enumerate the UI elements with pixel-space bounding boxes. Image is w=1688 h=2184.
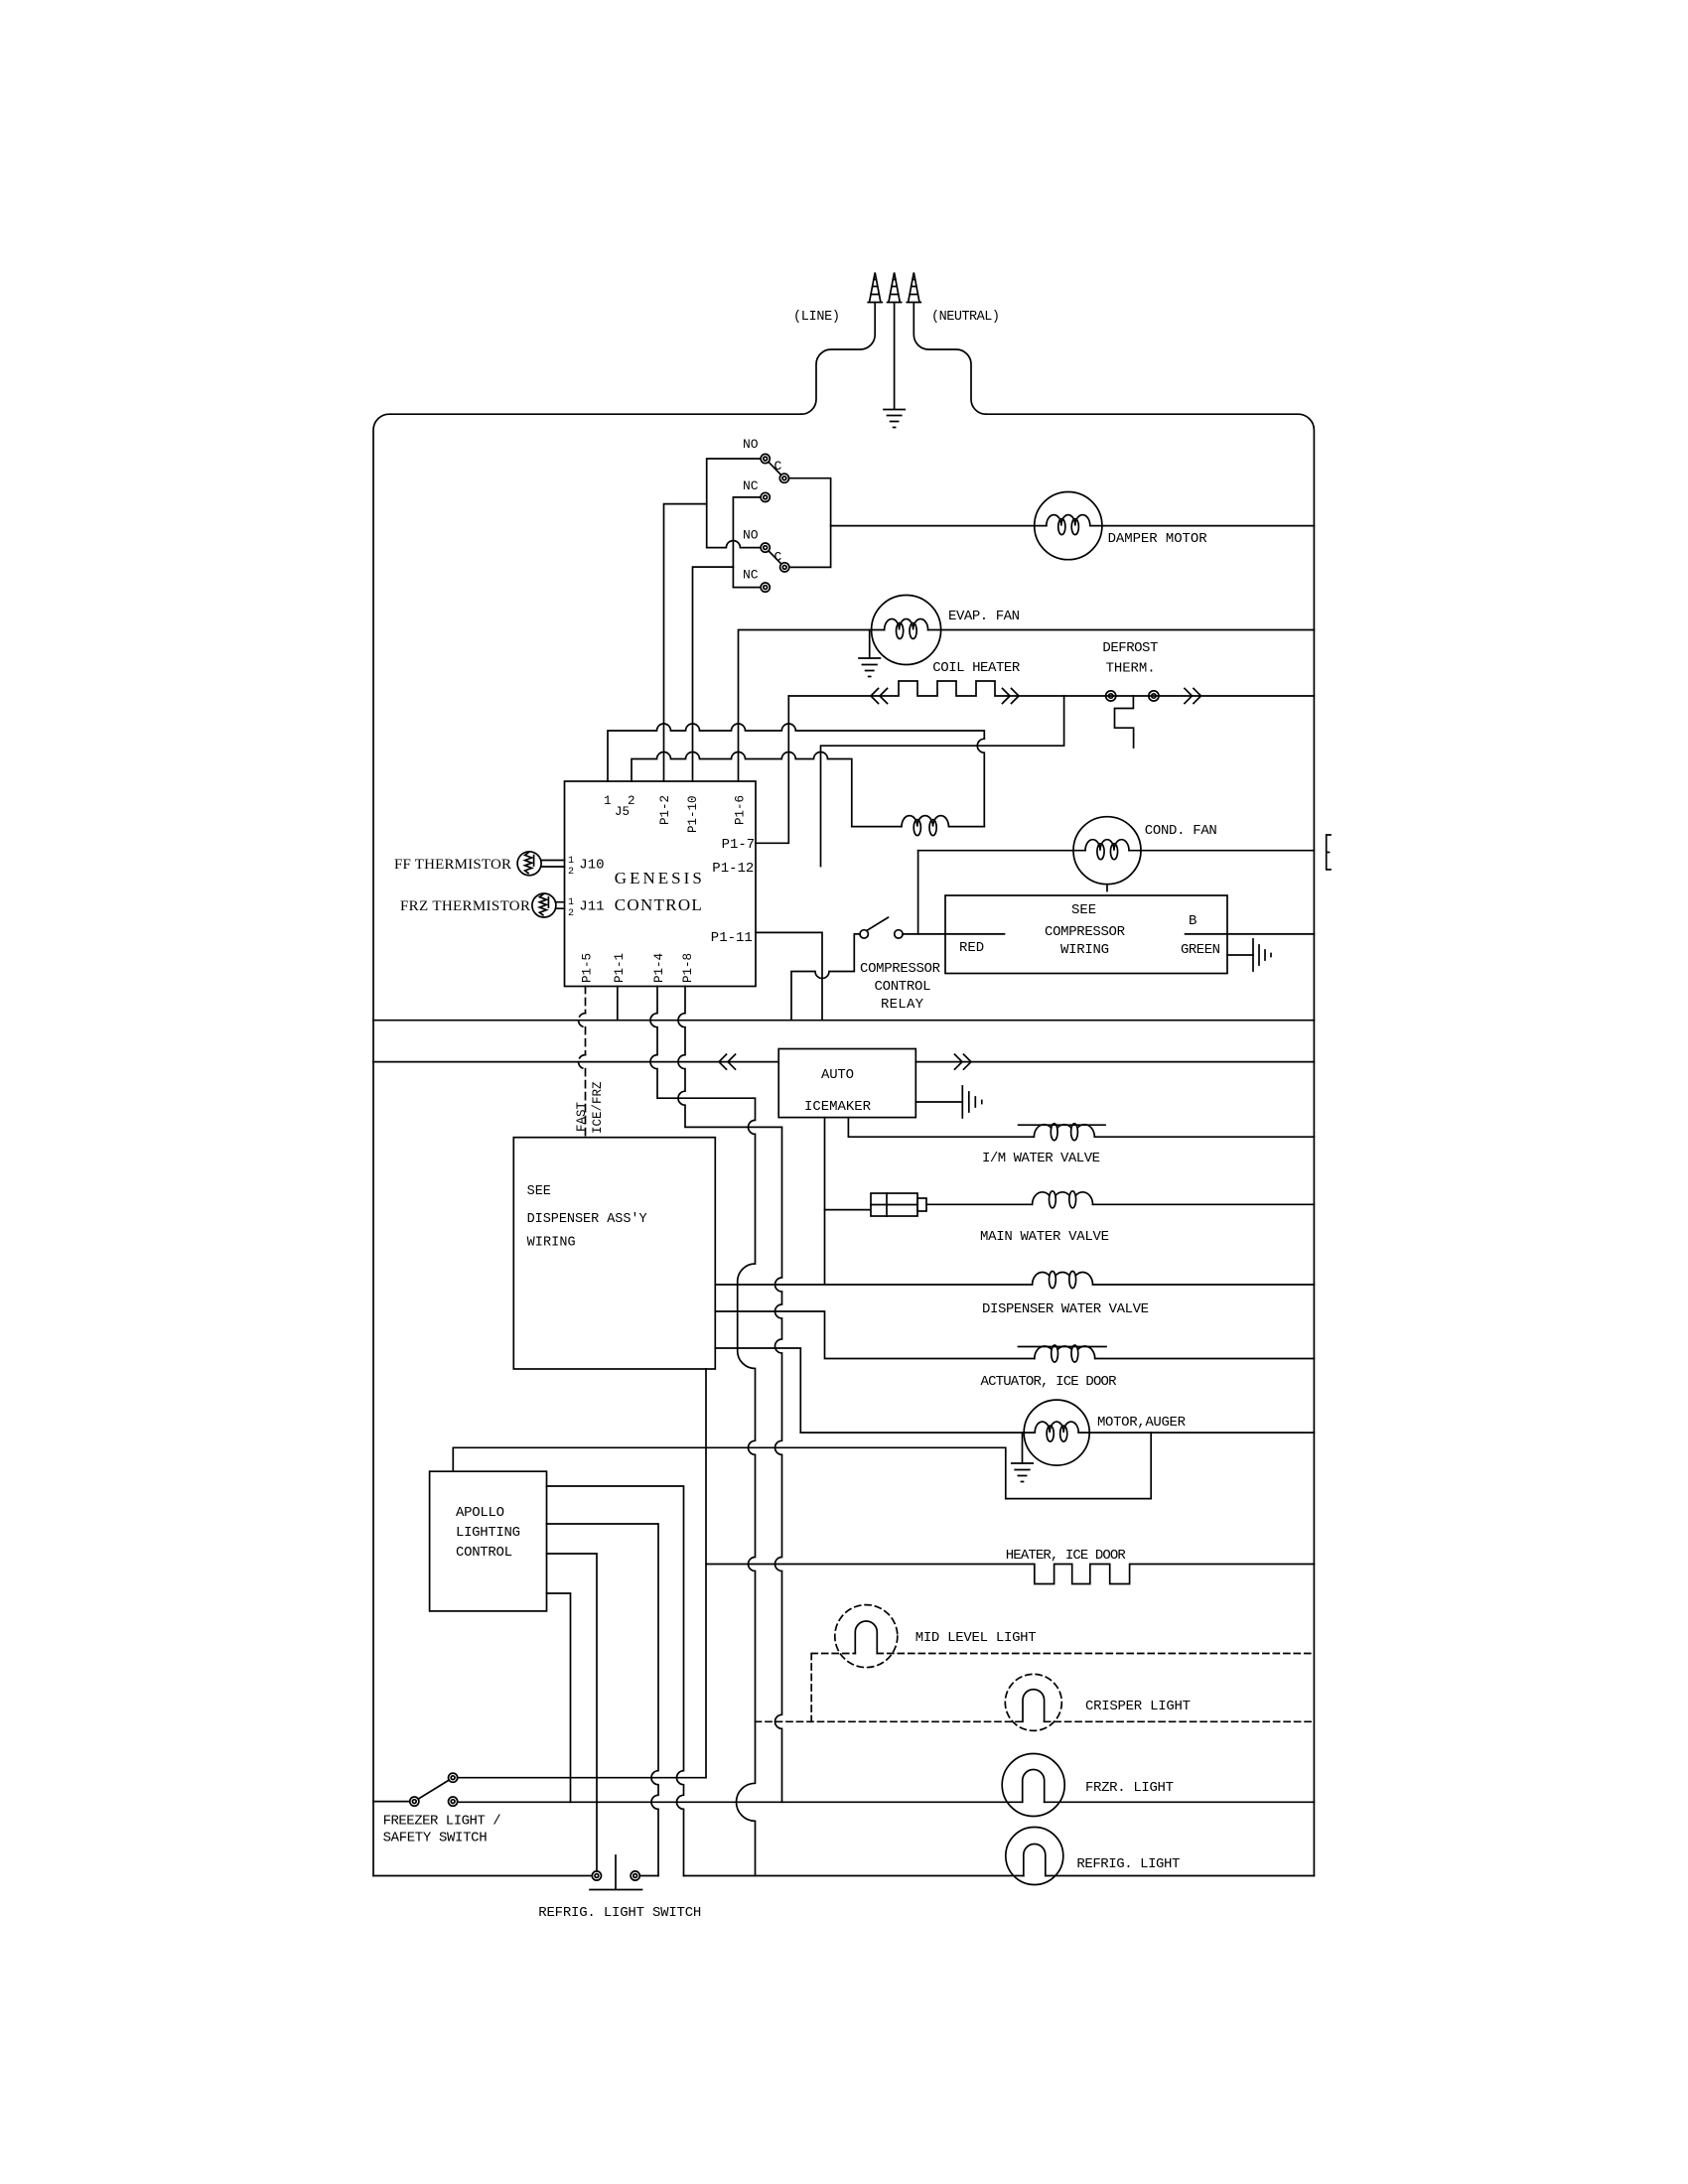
wire LINE down to border [801, 303, 875, 415]
svg-text:COMPRESSOR: COMPRESSOR [860, 961, 941, 977]
svg-text:HEATER, ICE DOOR: HEATER, ICE DOOR [1006, 1548, 1127, 1564]
main water valve solenoid L3 [1033, 1192, 1093, 1205]
wire refrig switch to apollo pin2 [639, 1875, 658, 1877]
svg-text:WIRING: WIRING [527, 1236, 576, 1251]
svg-text:C: C [774, 550, 782, 565]
svg-text:J10: J10 [579, 858, 604, 874]
wire bus line2 icemaker feed [373, 1061, 778, 1063]
svg-text:1: 1 [604, 794, 612, 808]
svg-text:FAST: FAST [575, 1101, 589, 1132]
ground power entry [884, 410, 905, 428]
wire B GREEN line [1186, 933, 1315, 935]
svg-text:FRZR. LIGHT: FRZR. LIGHT [1085, 1780, 1174, 1796]
switch SW2 NO terminal [761, 543, 770, 552]
svg-text:FREEZER LIGHT /: FREEZER LIGHT / [383, 1814, 501, 1830]
svg-text:AUTO: AUTO [821, 1067, 854, 1083]
wire heater ice door row [706, 1565, 1314, 1584]
svg-text:COMPRESSOR: COMPRESSOR [1045, 924, 1126, 940]
wire main to dispenser valve tie [824, 1210, 826, 1285]
wire freezer switch NO row [458, 1777, 706, 1779]
svg-text:NC: NC [743, 568, 759, 583]
coil L1 between bus lines [852, 816, 985, 827]
svg-text:P1-5: P1-5 [581, 953, 595, 983]
switch SW2 NC terminal [761, 583, 770, 592]
mid level light LP1 [835, 1605, 898, 1668]
svg-text:ICEMAKER: ICEMAKER [804, 1099, 872, 1115]
wire relay right contact to RED [903, 933, 1004, 935]
outer border left [373, 414, 801, 1875]
wire apollo pin4 [547, 1593, 571, 1802]
svg-text:B: B [1189, 913, 1196, 929]
svg-text:ACTUATOR, ICE DOOR: ACTUATOR, ICE DOOR [981, 1374, 1118, 1390]
connector arrows coil heater left [871, 689, 888, 704]
outer border right [986, 414, 1314, 1875]
svg-text:REFRIG. LIGHT: REFRIG. LIGHT [1076, 1856, 1180, 1872]
wire P1-12 up to defrost line [821, 696, 1064, 867]
svg-text:MID LEVEL LIGHT: MID LEVEL LIGHT [915, 1630, 1037, 1646]
svg-text:DISPENSER WATER VALVE: DISPENSER WATER VALVE [982, 1301, 1149, 1317]
svg-text:J11: J11 [579, 899, 604, 915]
crisper light LP2 [1005, 1674, 1061, 1730]
wire NO1 to NO2 bus [707, 459, 761, 548]
wire apollo pin2 [547, 1524, 659, 1876]
wire dispenser row2 to actuator [715, 1311, 1314, 1359]
connector arrows icemaker right [955, 1054, 972, 1069]
switch SW2 lever [769, 551, 781, 564]
wire C1-C2 tie [789, 478, 831, 568]
svg-text:P1-8: P1-8 [681, 953, 695, 983]
bus line B from J5-2 [632, 752, 852, 827]
defrost thermostat step element [1115, 696, 1134, 748]
wire icemaker bottom to main valve [825, 1118, 872, 1210]
dispenser water valve solenoid L4 [1033, 1273, 1093, 1286]
wire NC bus to P1-10 [693, 567, 734, 781]
wire dispenser row3 to auger [715, 1348, 800, 1433]
wire NC2 [733, 587, 761, 589]
svg-text:P1-2: P1-2 [658, 795, 672, 825]
wire freezer switch common to border [373, 1801, 410, 1803]
power entry arrow NEUTRAL [907, 273, 920, 303]
connector bracket right border [1327, 835, 1331, 870]
main water valve fuse F1 [871, 1193, 917, 1216]
auger motor M4 [1024, 1400, 1089, 1465]
wire auger motor row [800, 1432, 1314, 1433]
connector arrows icemaker left [719, 1054, 736, 1069]
svg-text:SEE: SEE [1071, 902, 1096, 918]
wire coil heater row with heater element [788, 681, 1314, 696]
svg-text:CONTROL: CONTROL [456, 1545, 512, 1561]
svg-text:COND. FAN: COND. FAN [1145, 823, 1217, 839]
svg-text:SAFETY SWITCH: SAFETY SWITCH [383, 1831, 488, 1846]
svg-text:1: 1 [568, 856, 574, 867]
svg-text:GREEN: GREEN [1181, 942, 1220, 958]
evap fan motor M2 [872, 596, 941, 665]
svg-text:LIGHTING: LIGHTING [456, 1525, 520, 1541]
wire evap fan row [739, 630, 1315, 782]
wire green ground stub [1227, 954, 1253, 956]
svg-text:SEE: SEE [527, 1184, 551, 1199]
ground evap fan [869, 630, 871, 659]
svg-text:APOLLO: APOLLO [456, 1505, 504, 1521]
switch SW1 lever [769, 462, 781, 475]
svg-text:CONTROL: CONTROL [615, 895, 702, 914]
wire refrig row left [373, 1875, 592, 1877]
wire icemaker ground stub [915, 1101, 962, 1103]
refrig light LP4 [1006, 1828, 1063, 1885]
wire main valve row [926, 1203, 1314, 1205]
frzr light LP3 [1002, 1754, 1064, 1817]
wire icemaker right to border [915, 1061, 1314, 1063]
wire cond fan row [918, 850, 1315, 852]
wire P1-11 to relay [756, 932, 822, 1020]
wire apollo top feed to auger [453, 1433, 1151, 1499]
wire P1-7 up to coil heater line [756, 696, 788, 843]
svg-text:FRZ THERMISTOR: FRZ THERMISTOR [400, 898, 530, 914]
refrig light switch SW4 [592, 1871, 601, 1880]
wire damper motor row [831, 525, 1315, 527]
svg-text:NO: NO [743, 437, 759, 452]
switch SW2 C terminal [780, 563, 789, 572]
svg-text:RELAY: RELAY [881, 997, 924, 1013]
svg-text:CONTROL: CONTROL [875, 979, 931, 995]
damper motor M1 [1035, 491, 1102, 559]
svg-text:THERM.: THERM. [1106, 661, 1156, 677]
svg-text:MAIN WATER VALVE: MAIN WATER VALVE [980, 1229, 1109, 1245]
connector arrows defrost right [1185, 689, 1201, 704]
wire P1-2 tap to NO bus [664, 504, 707, 781]
wire NC1 down [733, 497, 761, 588]
wire P1-1 [617, 987, 619, 1021]
wire dispenser valve row [715, 1284, 1314, 1286]
svg-text:P1-7: P1-7 [722, 837, 756, 853]
svg-text:FF THERMISTOR: FF THERMISTOR [394, 857, 511, 873]
svg-text:EVAP. FAN: EVAP. FAN [948, 609, 1020, 624]
svg-text:DEFROST: DEFROST [1102, 640, 1158, 656]
svg-text:I/M WATER VALVE: I/M WATER VALVE [982, 1151, 1100, 1166]
wire crisper light dashed row [756, 1720, 1315, 1722]
svg-text:J5: J5 [615, 805, 630, 819]
wire P1-8 [678, 987, 781, 1803]
wire refrig light row [684, 1875, 1315, 1877]
bus line A from J5-1 [608, 724, 984, 781]
wire middle down to ground [894, 303, 896, 410]
svg-text:DAMPER MOTOR: DAMPER MOTOR [1108, 531, 1208, 547]
cond fan motor M3 [1073, 817, 1141, 885]
FF thermistor RT1 [517, 852, 541, 876]
svg-text:DISPENSER ASS'Y: DISPENSER ASS'Y [527, 1212, 647, 1227]
svg-text:2: 2 [568, 867, 574, 878]
svg-text:RED: RED [959, 940, 984, 956]
wire relay left contact branch [791, 934, 860, 1021]
svg-text:NO: NO [743, 528, 759, 543]
svg-text:(NEUTRAL): (NEUTRAL) [931, 310, 1000, 325]
wire frzr light row [458, 1801, 1315, 1803]
svg-text:P1-6: P1-6 [734, 795, 748, 825]
ground auger motor [1022, 1433, 1024, 1463]
switch SW1 NC terminal [761, 492, 770, 501]
wire apollo pin3 [547, 1554, 598, 1871]
wire mid level light dashed row [811, 1654, 1314, 1722]
wire icemaker bottom to I/M valve [848, 1118, 1314, 1138]
power entry arrow LINE [868, 273, 882, 303]
svg-text:MOTOR,AUGER: MOTOR,AUGER [1097, 1415, 1187, 1431]
switch SW1 C terminal [779, 474, 788, 482]
wire P1-4 [650, 987, 755, 1876]
svg-text:CRISPER LIGHT: CRISPER LIGHT [1085, 1699, 1191, 1714]
svg-text:P1-4: P1-4 [652, 953, 666, 983]
connector arrows coil heater right [1003, 689, 1020, 704]
ground icemaker (rotated) [962, 1086, 982, 1118]
svg-text:WIRING: WIRING [1060, 942, 1109, 958]
SEE DISPENSER ASS'Y WIRING box [513, 1138, 715, 1369]
freezer light safety switch SW3 [410, 1797, 419, 1806]
GENESIS CONTROL box U1 [565, 781, 757, 987]
wire bus line1 [373, 1020, 1314, 1022]
svg-text:NC: NC [743, 478, 759, 493]
ground green (rotated) [1253, 939, 1271, 971]
svg-text:COIL HEATER: COIL HEATER [932, 660, 1021, 676]
svg-text:1: 1 [568, 897, 574, 908]
wire dispenser box bottom drop [705, 1369, 707, 1778]
svg-text:C: C [774, 459, 782, 474]
svg-text:ICE/FRZ: ICE/FRZ [591, 1081, 605, 1134]
defrost thermostat terminal 1 [1106, 691, 1116, 701]
wire P1-5 dashed [585, 987, 587, 1138]
SEE COMPRESSOR WIRING box [945, 895, 1227, 974]
svg-text:2: 2 [568, 908, 574, 919]
defrost thermostat terminal 2 [1149, 691, 1159, 701]
svg-text:REFRIG. LIGHT SWITCH: REFRIG. LIGHT SWITCH [538, 1905, 701, 1921]
wire NEUTRAL down to border [914, 303, 986, 415]
svg-text:P1-10: P1-10 [686, 795, 700, 833]
switch SW1 (damper) NO terminal [761, 454, 770, 463]
AUTO ICEMAKER box [778, 1049, 915, 1118]
wire apollo pin1 [547, 1486, 684, 1876]
power entry arrow middle [888, 273, 902, 303]
APOLLO LIGHTING CONTROL box U2 [430, 1471, 547, 1611]
svg-text:P1-1: P1-1 [613, 953, 627, 983]
actuator ice door solenoid L5 [1035, 1346, 1095, 1359]
I/M water valve solenoid L2 [1034, 1125, 1094, 1138]
svg-text:(LINE): (LINE) [793, 310, 840, 325]
FRZ thermistor RT2 [532, 893, 556, 917]
wire cond fan drop [917, 851, 919, 934]
svg-text:P1-11: P1-11 [711, 930, 753, 946]
compressor control relay K1 [860, 930, 868, 938]
svg-text:P1-12: P1-12 [712, 861, 754, 877]
